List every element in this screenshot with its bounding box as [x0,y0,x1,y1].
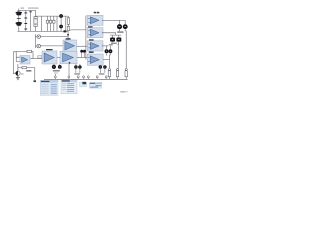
wire U2 output [102,33,121,38]
wire P7 up [54,63,60,66]
wire U1 output [102,19,125,21]
capacitor C1 [15,11,22,15]
wire diode link [60,16,62,31]
label P5 [74,73,80,74]
op-amp U8 [20,56,30,65]
resistor R4 with connector [116,68,118,79]
transistor Q1 [117,24,122,29]
resistor R3 with connector [108,68,110,79]
pot P6a [99,65,103,69]
wire top supply line [17,9,35,11]
diode D5 [59,14,63,18]
fuse F1 [34,17,37,27]
legend box L3 [80,82,87,87]
connector K4 [83,76,85,80]
wire P5 links [76,64,80,73]
wire diode column vertical [25,10,27,31]
diode D2 [24,18,27,19]
pot P3b [83,50,86,53]
connector K1 [54,76,56,80]
wire J2 to M1 [41,45,64,47]
wire vertical plain right [56,16,58,31]
pot P2a [110,38,115,42]
label P7 [53,70,60,72]
wire J1 to node [41,31,69,40]
wire rail feed [71,29,86,32]
label P2 [111,43,117,44]
connector K5 [96,76,98,80]
wire regulator drop [35,10,37,31]
wire vertical plain [41,16,43,31]
pot P4b [108,49,112,53]
wire opamp column rail [85,16,87,60]
label Q pair [117,31,123,33]
pot P5a [74,65,78,69]
microphone MK1 [16,71,21,76]
label U3 [89,39,94,40]
jack J2 [36,44,41,48]
op-amp U6 [42,51,57,64]
capacitor C4 [49,16,51,31]
label PSU caption [21,8,25,9]
wire feedback loop [16,51,33,61]
node M1 input junction [67,34,69,36]
wire mic rail left [13,52,16,74]
pot P6b [103,65,107,69]
op-amp U7 [60,51,77,64]
label IN tag [38,56,42,58]
capacitor C2 [15,22,22,26]
wire jack sleeve rail [35,34,37,48]
op-amp U1 [87,15,103,25]
capacitor C5 [53,16,55,31]
wire P4 links [107,46,111,68]
wire drops to transistors [120,20,126,24]
label U5 [66,38,71,40]
legend box L1 [40,80,58,95]
connector bottom stub [34,80,37,82]
pot P5b [78,65,82,69]
wire U6 to U7 [57,57,60,59]
capacitor C3 [46,16,48,31]
label P6 [99,73,105,74]
op-amp U3 [87,41,103,51]
resistor R7 [18,67,35,69]
label U6 [46,49,53,50]
node below U7 [69,62,71,64]
wire cap bank top bus [36,15,69,17]
wire switch vertical [30,10,32,31]
node junction dash [17,17,21,20]
resistor R1 [67,16,69,26]
wire supply left vertical [18,9,20,32]
diode D4 [24,29,27,30]
connector K2 [68,76,70,80]
wire to bottom connector [34,68,36,81]
label U1 [94,12,97,14]
wire vertical x65.8 [65,16,67,31]
op-amp U4 [87,54,103,65]
transistor Q2 [123,24,128,29]
wire U4 output [103,59,109,61]
diode D3 [24,23,27,24]
connector K6 [105,76,107,80]
pot P4a [105,49,109,53]
wire U5 output [77,45,88,47]
label U2 [88,26,93,27]
connector K3 [77,76,79,80]
legend box L4 [89,83,101,89]
wire U7 output [77,57,87,59]
wire P6 links [100,65,105,73]
pot P2b [116,38,121,42]
wire Q down [120,29,127,68]
op-amp U5 [63,40,77,51]
ground [16,76,20,80]
resistor R5 with connector [125,68,127,79]
diode D1 [24,12,27,13]
jack J1 [36,35,41,39]
wire P2 down [113,42,119,69]
legend box L2 [61,80,77,94]
label P4 [109,44,113,45]
label U4 [89,51,94,53]
wire mic link [17,64,19,71]
wire P3 stubs [82,53,85,58]
resistor R2 [67,26,69,30]
wire into U6 [30,58,42,60]
pot P7a [52,65,56,69]
label caption [120,91,125,92]
wire bottom bus [44,78,128,80]
resistor R6 [27,50,32,52]
wire drop to K1 [55,64,69,76]
dark bar component [26,70,31,71]
wire ground bus bottom [17,30,68,32]
diode D6 [59,25,63,29]
op-amp U2 [87,28,103,38]
pot P3a [80,50,83,53]
pot P7b [58,65,62,69]
wire U3 output to P4 [102,45,109,47]
node bus junction [64,30,67,32]
